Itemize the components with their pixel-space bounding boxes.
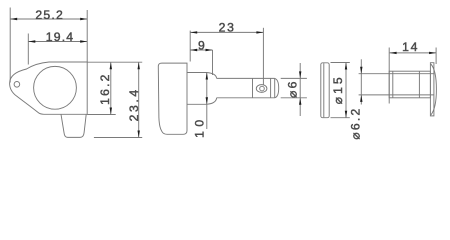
bushing bore line bottom (o6.2 extension)	[359, 94, 434, 96]
bushing bore line top (o6.2 extension)	[359, 73, 434, 75]
svg-text:⌀6.2: ⌀6.2	[349, 107, 363, 140]
bushing barrel	[389, 71, 430, 98]
string hole inner circle	[260, 86, 265, 91]
string hole ellipse	[256, 85, 267, 93]
dimension line o6.2	[360, 59, 362, 104]
extension line 23/9 left	[189, 31, 191, 62]
dimension line 23	[190, 31, 263, 33]
svg-text:25.2: 25.2	[35, 8, 64, 22]
bushing flange dome arc	[431, 64, 437, 115]
arrowhead 25.2 right	[80, 18, 87, 20]
arrowhead 19.4 left	[28, 40, 35, 42]
bushing flange	[430, 63, 434, 116]
dimension line o6	[299, 63, 301, 116]
arrowhead 16.2 bottom	[110, 108, 112, 115]
arrowhead 23.4 top	[138, 62, 140, 69]
dimension line 16.2	[110, 62, 112, 114]
svg-text:23: 23	[219, 20, 236, 34]
washer side view	[321, 63, 329, 118]
arrowhead o6.2 bottom (outside)	[360, 95, 362, 102]
arrowhead 14 left	[390, 52, 397, 54]
svg-text:⌀6: ⌀6	[286, 79, 300, 98]
extension line 23.4 bottom	[94, 137, 142, 139]
arrowhead 10 top	[206, 73, 208, 80]
arrowhead o6 bottom (outside)	[299, 98, 301, 105]
dimension line 19.4	[28, 41, 87, 43]
bushing washer-seat line	[418, 71, 420, 98]
screw hole	[14, 82, 20, 88]
arrowhead o6.2 top (outside)	[360, 67, 362, 74]
extension line 16.2 bottom	[87, 114, 116, 116]
svg-text:19.4: 19.4	[46, 30, 75, 44]
extension line o15 top	[331, 62, 350, 64]
extension line 19.4 left	[27, 34, 29, 65]
extension line o6 bottom	[281, 97, 307, 99]
arrowhead o15 bottom	[345, 111, 347, 118]
dimension line 10	[206, 73, 208, 130]
arrowhead 23 left	[190, 31, 197, 33]
extension line 9 right	[212, 50, 214, 75]
extension line right edge (25.2 / 19.4)	[86, 10, 88, 62]
gear housing dome circle	[34, 66, 77, 109]
arrowhead 23.4 bottom	[138, 131, 140, 138]
arrowhead o15 top	[345, 63, 347, 70]
extension line top (16.2 / 23.4)	[87, 61, 142, 63]
dimension line 23.4	[138, 62, 140, 137]
svg-text:23.4: 23.4	[127, 87, 141, 121]
washer inner line	[323, 63, 325, 117]
shaft (ø6) side view	[217, 78, 279, 97]
arrowhead 14 right	[429, 52, 436, 54]
extension line 14 left	[388, 48, 390, 104]
dimension line 25.2	[10, 18, 87, 20]
shaft hole section line left	[252, 78, 254, 97]
tuner plate outline	[10, 62, 88, 114]
button stem front view	[61, 114, 86, 137]
dimension line 9	[190, 49, 212, 51]
arrowhead 10 bottom	[206, 97, 208, 104]
extension line 23 right	[262, 28, 264, 85]
bushing barrel left chamfer line	[392, 71, 394, 98]
tuner button side view	[158, 63, 187, 134]
collar (ø10) side view	[187, 73, 217, 105]
svg-text:16.2: 16.2	[98, 72, 112, 105]
dimension line o15	[345, 63, 347, 118]
extension line 25.2 left	[9, 8, 11, 83]
extension line 14 right	[435, 48, 437, 65]
svg-text:9: 9	[198, 39, 206, 53]
extension line o6 top	[281, 77, 307, 79]
svg-text:⌀15: ⌀15	[331, 74, 345, 104]
shaft hole section line right	[270, 78, 272, 97]
arrowhead o6 top (outside)	[299, 71, 301, 78]
arrowhead 16.2 top	[110, 62, 112, 69]
arrowhead 19.4 right	[80, 40, 87, 42]
arrowhead 9 left	[190, 49, 197, 51]
svg-text:14: 14	[402, 40, 419, 54]
svg-text:10: 10	[193, 115, 207, 138]
arrowhead 23 right	[256, 31, 263, 33]
arrowhead 9 right	[206, 49, 213, 51]
arrowhead 25.2 left	[10, 18, 17, 20]
extension line o15 bottom	[331, 117, 350, 119]
dimension line 14	[390, 52, 437, 54]
